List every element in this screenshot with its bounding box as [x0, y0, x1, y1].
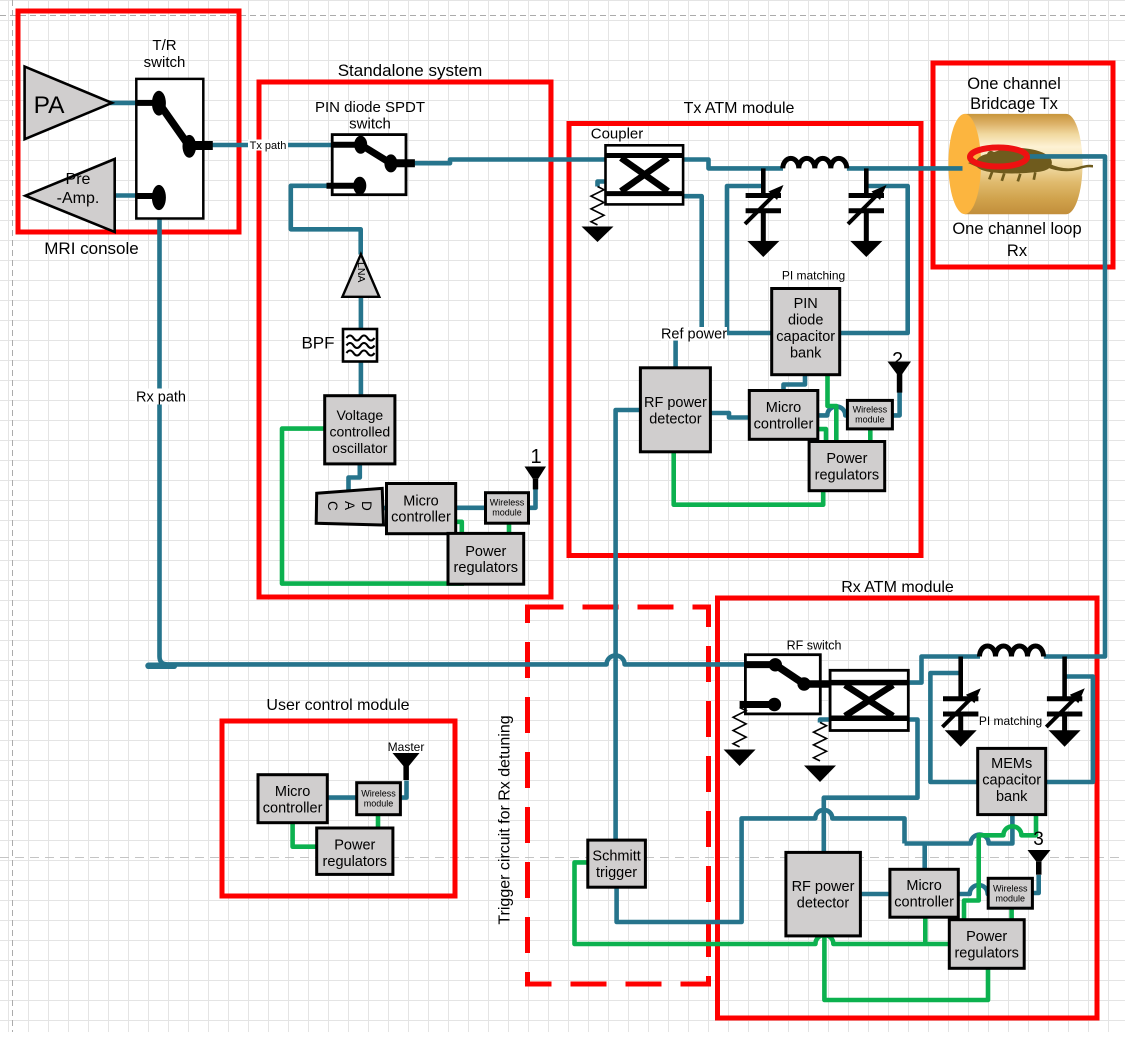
wire SPDT lower port to LNA: [291, 186, 361, 255]
svg-text:C: C: [325, 501, 340, 511]
wire inductor to birdcage: [847, 166, 963, 171]
green wire micro controller to power regulators (standalone): [456, 522, 462, 534]
PIN diode capacitor bank box: [772, 289, 840, 375]
RF switch box (Rx): [745, 655, 820, 714]
green wire micro controller to power regulators (Tx): [818, 429, 827, 442]
wire MEMs bank bottom across, hop over green: [905, 815, 1013, 844]
svg-text:PI matching: PI matching: [979, 714, 1042, 728]
Tx coupler bars and X: [606, 156, 684, 194]
wire coupler tap to RF power detector (Ref power): [676, 196, 702, 368]
SPDT input stub: [333, 142, 356, 148]
green wire PIN bank to power regulators (Tx): [828, 375, 837, 442]
Standalone system red frame: [259, 82, 551, 597]
wire MEMs bank left branch: [930, 673, 978, 782]
svg-text:controller: controller: [754, 417, 814, 433]
Rx coupler box: [830, 670, 908, 730]
svg-text:regulators: regulators: [454, 560, 518, 576]
svg-text:oscillator: oscillator: [332, 440, 388, 456]
T/R switch input stub Pre-Amp: [137, 193, 153, 199]
T/R switch box: [136, 79, 203, 219]
svg-text:module: module: [996, 894, 1026, 904]
Tx coupler termination resistor: [591, 187, 604, 225]
svg-text:2: 2: [892, 349, 903, 371]
wire coupler out to inductor (Tx matching): [683, 160, 783, 169]
wire PIN bank to micro controller (Tx): [784, 375, 806, 392]
Pre-Amp amplifier triangle: [25, 159, 114, 232]
LNA amplifier triangle: [342, 254, 379, 297]
svg-text:module: module: [364, 799, 394, 809]
MRI console red frame: [18, 11, 239, 232]
rat inside birdcage: [968, 148, 1093, 182]
svg-text:trigger: trigger: [596, 865, 637, 881]
svg-text:Pre: Pre: [66, 171, 91, 188]
svg-text:Power: Power: [334, 838, 375, 854]
svg-text:PA: PA: [34, 92, 66, 119]
T/R switch contact middle: [183, 135, 197, 158]
svg-text:bank: bank: [790, 346, 822, 362]
Schmitt trigger box: [588, 840, 646, 887]
svg-text:Bridcage Tx: Bridcage Tx: [970, 95, 1058, 113]
wire RF power detector to micro controller (Rx): [860, 892, 890, 897]
svg-text:controller: controller: [391, 510, 451, 526]
green wire Schmitt trigger to Rx power regulators, hop: [575, 862, 950, 944]
Rx matching inductor: [980, 646, 1044, 657]
T/R switch output stub: [194, 141, 213, 150]
svg-text:PI matching: PI matching: [782, 269, 845, 283]
green wire power regulators to RF power detector (Tx): [674, 452, 824, 505]
wire BPF to VCO: [359, 361, 364, 396]
Micro controller box (Rx): [890, 869, 958, 917]
RF power detector box (Tx): [640, 368, 710, 452]
svg-text:Rx ATM module: Rx ATM module: [841, 579, 954, 596]
svg-text:regulators: regulators: [954, 946, 1018, 962]
ground below Tx capacitor right: [850, 241, 882, 257]
label Ref power: [661, 327, 727, 341]
svg-text:RF switch: RF switch: [787, 639, 842, 653]
wire wireless module to master antenna: [400, 781, 407, 798]
antenna 1: [525, 467, 547, 490]
DAC trapezoid: [316, 488, 383, 525]
svg-text:Voltage: Voltage: [336, 407, 383, 423]
wire wireless module to antenna 2: [892, 393, 900, 416]
green wire VCO feedback loop to power regulators: [282, 429, 464, 584]
svg-text:capacitor: capacitor: [982, 773, 1041, 789]
svg-text:A: A: [342, 501, 357, 510]
wire wireless module to antenna 1: [528, 489, 536, 508]
svg-text:PIN: PIN: [794, 296, 818, 312]
wire branch down to micro controller top (Rx): [922, 844, 927, 870]
svg-text:Trigger circuit for Rx detunin: Trigger circuit for Rx detuning: [497, 715, 514, 924]
red ellipse on birdcage: [970, 148, 1027, 167]
svg-text:User control module: User control module: [266, 697, 409, 714]
Micro controller box (standalone): [387, 484, 456, 534]
Micro controller box (Tx): [749, 391, 818, 440]
green wire wireless module to power regulators (Rx): [1009, 908, 1014, 920]
wire Tx coupler left tap to resistor: [598, 182, 607, 187]
svg-text:Master: Master: [388, 740, 425, 754]
green wire MEMs bank to power regulators (Rx), hop over teal: [964, 815, 1036, 920]
wire LNA to BPF: [359, 294, 364, 330]
Rx variable capacitor right: [1046, 657, 1082, 732]
svg-text:switch: switch: [144, 54, 186, 71]
RF switch contact right: [797, 677, 810, 690]
svg-text:3: 3: [1033, 829, 1044, 850]
page boundary dashed line left: [12, 0, 14, 1032]
svg-text:capacitor: capacitor: [776, 329, 835, 345]
green wire micro controller to power regulators (user): [293, 823, 317, 847]
ground below Tx capacitor left: [747, 241, 779, 257]
Wireless module box (Tx): [847, 400, 892, 429]
PA amplifier triangle: [25, 67, 112, 140]
svg-text:Wireless: Wireless: [361, 789, 396, 799]
svg-text:diode: diode: [788, 313, 823, 329]
Bridcage Tx red frame: [933, 63, 1113, 267]
RF switch input stub: [746, 661, 770, 668]
wire MEMs bank right branch: [1046, 677, 1093, 783]
SPDT contact top: [354, 136, 367, 154]
svg-text:bank: bank: [996, 789, 1028, 805]
svg-text:detector: detector: [797, 896, 850, 912]
svg-text:RF power: RF power: [644, 395, 707, 411]
SPDT lower stub: [327, 183, 356, 189]
svg-text:D: D: [359, 501, 374, 511]
green wire wireless module to power regulators (user): [376, 815, 381, 829]
svg-text:regulators: regulators: [323, 854, 387, 870]
RF switch contact top: [769, 658, 782, 671]
RF power detector box (Rx): [786, 852, 861, 936]
svg-text:controller: controller: [263, 801, 323, 817]
green wire power regulators to RF power detector (Rx): [824, 936, 988, 1000]
T/R switch contact top: [152, 91, 166, 116]
T/R switch arm: [159, 103, 189, 146]
wire Rx path from T/R down and across to RF switch, hop over trigger wire: [160, 200, 747, 664]
svg-text:controlled: controlled: [329, 424, 390, 440]
Tx matching inductor: [783, 158, 847, 168]
ground below Tx resistor: [582, 227, 614, 243]
svg-text:Power: Power: [826, 451, 867, 467]
svg-text:detector: detector: [649, 412, 702, 428]
svg-text:Power: Power: [966, 929, 1007, 945]
svg-text:PIN diode SPDT: PIN diode SPDT: [315, 99, 425, 116]
wire coupler Rx output up to PI matching: [908, 657, 980, 683]
MEMs capacitor bank box: [978, 748, 1046, 814]
svg-text:Wireless: Wireless: [853, 405, 888, 415]
master antenna: [393, 753, 420, 780]
RF switch output stub to coupler: [804, 680, 829, 688]
Micro controller box (user): [258, 775, 327, 823]
wire RF power detector left to Schmitt trigger: [616, 410, 641, 840]
BPF box: [343, 329, 377, 362]
Trigger circuit dashed red frame: [528, 607, 709, 984]
svg-text:1: 1: [530, 446, 541, 468]
Tx variable capacitor right: [848, 168, 884, 242]
wire RF power detector to micro controller (Tx): [710, 413, 750, 418]
svg-text:Schmitt: Schmitt: [592, 849, 640, 865]
page boundary dashed line bottom: [0, 857, 1125, 859]
wire Tx matching left branch to PIN capacitor bank: [727, 186, 772, 333]
svg-text:-Amp.: -Amp.: [57, 190, 100, 207]
Rx coupler termination resistor: [814, 723, 827, 761]
green wire wireless module to power regulators (standalone): [507, 523, 512, 534]
svg-text:Wireless: Wireless: [490, 498, 525, 508]
svg-text:Micro: Micro: [403, 494, 438, 510]
svg-text:Micro: Micro: [906, 878, 941, 894]
PIN diode SPDT switch box: [332, 135, 406, 195]
SPDT contact right: [384, 154, 397, 172]
RF switch lower stub: [740, 701, 770, 708]
wire SPDT output to coupler: [415, 160, 607, 164]
SPDT arm: [361, 145, 391, 164]
Rx variable capacitor left: [942, 657, 978, 732]
green wire micro controller down (Rx): [923, 917, 928, 944]
svg-text:Micro: Micro: [275, 784, 310, 800]
Power regulators box (standalone): [448, 533, 524, 584]
wire micro controller to wireless module (Tx) hop over green: [818, 406, 848, 415]
svg-text:One channel loop: One channel loop: [952, 220, 1081, 238]
Rx coupler bars and X: [830, 683, 908, 719]
svg-text:Rx path: Rx path: [136, 390, 186, 406]
antenna 2: [888, 362, 912, 393]
birdcage coil cylinder: [948, 114, 1082, 214]
svg-text:Tx path: Tx path: [250, 140, 287, 152]
svg-text:Wireless: Wireless: [993, 884, 1028, 894]
User control module red frame: [222, 721, 455, 896]
ground below Rx coupler resistor: [804, 766, 836, 783]
Power regulators box (user): [317, 828, 393, 874]
svg-text:controller: controller: [894, 895, 954, 911]
svg-text:Standalone system: Standalone system: [338, 61, 483, 80]
svg-text:Micro: Micro: [766, 400, 801, 416]
RF switch contact bottom: [768, 698, 781, 711]
wire micro controller to wireless module (standalone): [456, 505, 487, 510]
wire wireless module to antenna 3: [1032, 875, 1039, 893]
svg-text:Coupler: Coupler: [591, 126, 644, 143]
T/R switch input stub PA: [137, 100, 153, 106]
svg-text:regulators: regulators: [815, 468, 879, 484]
svg-text:LNA: LNA: [355, 262, 367, 282]
wire Pre-Amp to T/R switch: [113, 193, 137, 198]
ground below RF switch resistor: [724, 750, 756, 767]
svg-text:T/R: T/R: [152, 37, 176, 54]
svg-text:module: module: [492, 508, 522, 518]
Power regulators box (Rx): [949, 920, 1024, 969]
ground below Rx capacitor right: [1049, 730, 1081, 747]
svg-text:Rx: Rx: [1007, 242, 1028, 260]
Voltage controlled oscillator box: [325, 396, 395, 464]
wire birdcage loop Rx down to PI matching: [1027, 156, 1105, 656]
svg-text:MRI console: MRI console: [44, 239, 138, 258]
RF switch termination resistor: [733, 708, 746, 747]
svg-text:RF power: RF power: [792, 879, 855, 895]
Tx coupler box: [606, 145, 684, 204]
svg-text:One channel: One channel: [967, 75, 1061, 93]
BPF wave symbols: [347, 336, 375, 356]
wire micro controller to wireless module (user): [327, 795, 357, 800]
Wireless module box (user): [357, 783, 401, 815]
wire Rx coupler left tap to resistor: [820, 720, 831, 723]
Power regulators box (Tx): [809, 442, 885, 491]
wire micro controller to wireless module (Rx) hop over green: [958, 885, 989, 894]
svg-text:switch: switch: [349, 116, 391, 133]
svg-text:BPF: BPF: [301, 334, 334, 353]
T/R switch contact bottom: [152, 185, 166, 210]
svg-text:Tx ATM module: Tx ATM module: [684, 100, 795, 117]
green wire wireless module to power regulators (Tx): [868, 429, 873, 442]
ground below Rx capacitor left: [945, 730, 977, 747]
Rx ATM module red frame: [718, 598, 1098, 1018]
svg-text:Ref power: Ref power: [661, 327, 727, 343]
wire DAC to micro controller: [383, 506, 388, 511]
label Rx path: [135, 389, 187, 405]
wire coupler Rx tap down to RF power detector: [824, 720, 918, 853]
wire Schmitt trigger output up across to micro controller, hop over detector wire: [617, 810, 905, 922]
page boundary dashed line top: [0, 15, 1125, 17]
antenna 3: [1028, 850, 1051, 875]
svg-text:module: module: [855, 415, 885, 425]
wire Tx matching right branch to PIN capacitor bank: [840, 186, 908, 333]
RF switch arm: [775, 665, 804, 684]
Wireless module box (standalone): [486, 493, 529, 524]
wire Rx path corner overshoot stub: [149, 663, 175, 670]
wire VCO to DAC: [349, 464, 360, 491]
svg-text:Power: Power: [465, 544, 506, 560]
Wireless module box (Rx): [988, 878, 1032, 908]
wire PA to T/R switch: [110, 101, 137, 106]
Tx ATM module red frame: [569, 124, 921, 556]
SPDT contact bottom: [353, 177, 366, 195]
Tx variable capacitor left: [745, 168, 781, 242]
svg-text:MEMs: MEMs: [991, 756, 1032, 772]
wire Tx path T/R to SPDT switch: [213, 143, 333, 148]
label Tx path: [248, 140, 288, 151]
SPDT output stub: [395, 159, 415, 167]
